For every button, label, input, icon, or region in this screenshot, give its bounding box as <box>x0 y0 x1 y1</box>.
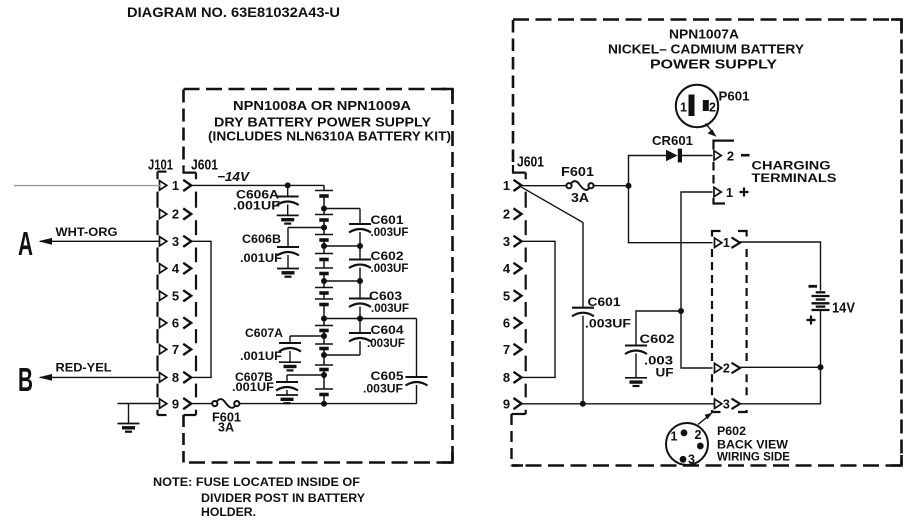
node: C603-C604 junction <box>357 316 363 322</box>
svg-text:A: A <box>18 225 33 262</box>
svg-text:WIRING SIDE: WIRING SIDE <box>717 450 790 464</box>
svg-text:NOTE: FUSE LOCATED INSIDE: NOTE: FUSE LOCATED INSIDE OF <box>153 475 360 489</box>
svg-text:CR601: CR601 <box>652 134 693 148</box>
wire: CR601 to charging terminal 2 <box>682 155 713 157</box>
svg-text:.003UF: .003UF <box>371 227 409 239</box>
battery BT1 plates <box>816 291 826 293</box>
svg-text:NICKEL– CADMIUM BATTERY: NICKEL– CADMIUM BATTERY <box>608 42 804 57</box>
svg-text:2: 2 <box>503 207 510 222</box>
svg-text:3A: 3A <box>218 421 234 435</box>
node: stack tap C604 <box>321 352 327 358</box>
wire: tap to C601 <box>324 208 360 210</box>
svg-text:F601: F601 <box>561 165 594 179</box>
node: stack tap C602/C603 <box>321 278 327 284</box>
svg-text:WHT-ORG: WHT-ORG <box>56 227 118 239</box>
battery B601 cell 8 <box>315 325 333 327</box>
svg-text:4: 4 <box>503 261 511 276</box>
svg-text:POWER SUPPLY: POWER SUPPLY <box>650 57 777 72</box>
charging terminal 1 (plus) <box>714 187 721 196</box>
battery B601 cell 3 <box>315 234 333 236</box>
wire: pin 1 to battery stack <box>192 184 324 186</box>
svg-text:TERMINALS: TERMINALS <box>752 171 837 185</box>
node: battery plus junction <box>818 364 824 370</box>
svg-text:3: 3 <box>723 397 730 411</box>
svg-text:C602: C602 <box>371 251 404 263</box>
battery B601 cell 1 <box>315 190 333 192</box>
ground (C606A) <box>277 214 299 216</box>
svg-text:2: 2 <box>723 362 730 376</box>
svg-text:9: 9 <box>503 396 510 411</box>
ground (C607B) <box>276 394 298 396</box>
battery B601 cell 7 <box>315 298 333 300</box>
svg-text:C606B: C606B <box>242 234 281 246</box>
node: C602 junction <box>678 308 684 314</box>
svg-text:2: 2 <box>172 207 179 222</box>
wire: tap to C601/C602 junction <box>324 245 360 247</box>
svg-text:P601: P601 <box>719 90 750 104</box>
svg-text:DRY BATTERY POWER SUPPLY: DRY BATTERY POWER SUPPLY <box>214 115 431 130</box>
P602 contact 2 <box>697 443 704 450</box>
J101/J601 pin 5 <box>160 291 167 300</box>
svg-text:1: 1 <box>680 101 687 115</box>
svg-text:HOLDER.: HOLDER. <box>201 505 256 519</box>
wire: battery to node <box>820 310 822 367</box>
node: C601 bottom on pin9 wire <box>580 401 586 407</box>
P602 jack pin 1 <box>715 238 722 247</box>
fuse F601 (left) <box>212 401 217 406</box>
J101/J601 pin 3 <box>160 237 167 246</box>
P601 contact 2 <box>703 100 709 111</box>
fuse F601 (right) <box>566 183 571 188</box>
capacitor C607B <box>286 375 288 382</box>
svg-text:1: 1 <box>671 430 678 444</box>
connector P602 jack outline <box>712 231 721 237</box>
svg-text:2: 2 <box>709 101 716 115</box>
wire: tap to C607A <box>290 335 324 337</box>
box corner reinforcements (left box) <box>442 89 453 463</box>
node: F601 output junction <box>626 183 632 189</box>
battery plus sign <box>807 319 816 321</box>
capacitor C606A <box>287 185 289 196</box>
capacitor C605 <box>416 319 418 378</box>
svg-text:C601: C601 <box>588 295 621 309</box>
svg-text:NPN1007A: NPN1007A <box>669 27 740 42</box>
capacitor C607A <box>289 336 291 343</box>
wire: pin3 to pin8 jumper (right) <box>523 241 555 377</box>
svg-text:.003UF: .003UF <box>367 338 405 350</box>
box corner reinforcements (right box) <box>512 20 902 466</box>
svg-text:−14V: −14V <box>217 169 250 184</box>
capacitor C606B <box>287 228 289 248</box>
svg-text:C605: C605 <box>371 371 405 383</box>
node: stack tap C601/C602 <box>321 243 327 249</box>
node: stack tap to C606B <box>321 225 327 231</box>
ground at J101 pin 9 <box>118 403 160 405</box>
J101/J601 pin 9 <box>160 399 167 408</box>
terminal B arrow wire (RED-YEL) <box>40 376 160 378</box>
svg-text:14V: 14V <box>832 300 855 317</box>
battery BT1 14V minus sign <box>809 285 818 288</box>
wire: charging terminal 1 to node <box>681 192 713 311</box>
svg-text:1: 1 <box>726 185 733 200</box>
terminal A arrow wire (WHT-ORG) <box>40 240 160 242</box>
svg-text:4: 4 <box>172 261 180 276</box>
svg-text:3A: 3A <box>571 191 589 205</box>
P602 contact 3 <box>680 456 687 463</box>
box edge corner into J601 <box>184 166 197 173</box>
J101/J601 pin 1 <box>160 181 167 190</box>
svg-text:J601: J601 <box>191 158 218 174</box>
wire: F601 to node <box>594 185 629 187</box>
svg-text:C603: C603 <box>369 291 402 303</box>
svg-text:3: 3 <box>172 234 179 249</box>
box edge corner into J601 (right) <box>513 165 526 173</box>
svg-text:.001UF: .001UF <box>240 253 282 265</box>
svg-text:1: 1 <box>503 178 510 193</box>
wire: pin1 to F601 (right) <box>523 185 567 187</box>
enclosure: dry battery power supply dashed box <box>184 88 453 91</box>
wire: tap to C602/C603 junction <box>324 280 360 282</box>
node: stack tap C607B <box>321 372 327 378</box>
svg-text:.001UF: .001UF <box>240 351 282 363</box>
charging terminal 2 (minus) <box>714 151 721 160</box>
svg-text:C602: C602 <box>640 332 675 346</box>
node: stack tap C603/C604/C605 <box>321 316 327 322</box>
wire: faint external line into pin 1 <box>14 185 160 187</box>
diode CR601 <box>666 150 678 162</box>
battery B601 cell 6 <box>315 287 333 289</box>
svg-text:8: 8 <box>172 370 179 385</box>
battery B601 cell 2 <box>315 214 333 216</box>
wire: tap to C607B <box>287 374 324 376</box>
battery B601 cell 4 <box>315 253 333 255</box>
svg-text:7: 7 <box>172 342 179 357</box>
J101/J601 pin 6 <box>160 318 167 327</box>
arrow: P601 to charging terminals <box>706 124 714 134</box>
svg-text:1: 1 <box>172 178 179 193</box>
J101/J601 pin 8 <box>160 373 167 382</box>
plus sign <box>740 191 749 193</box>
wire: P602 pin1 to battery top <box>740 242 821 291</box>
svg-text:6: 6 <box>503 316 510 331</box>
svg-text:.003UF: .003UF <box>363 384 403 396</box>
ground (C606B) <box>277 268 299 270</box>
node: stack bottom junction <box>321 401 327 407</box>
svg-text:3: 3 <box>503 234 510 249</box>
svg-text:.001UF: .001UF <box>232 382 274 394</box>
wire: F601 to stack bottom and C605 <box>239 403 416 405</box>
J101/J601 pin 4 <box>160 264 167 273</box>
svg-text:5: 5 <box>172 289 179 304</box>
svg-text:3: 3 <box>688 453 695 467</box>
svg-text:.003UF: .003UF <box>585 317 631 331</box>
node: C606A tap on pin1 wire <box>285 182 291 188</box>
svg-text:6: 6 <box>172 316 179 331</box>
connector J101 outline <box>158 171 167 173</box>
svg-text:RED-YEL: RED-YEL <box>56 363 112 375</box>
svg-text:C607A: C607A <box>245 328 283 340</box>
wire: pin9 to P602 pin 3 <box>523 403 715 405</box>
connector P602 (back view) <box>666 423 708 465</box>
svg-text:9: 9 <box>172 396 179 411</box>
battery B601 stack stem wire <box>323 185 325 403</box>
P601 contact 1 <box>689 95 695 117</box>
connector J601 (right) outline <box>525 173 527 414</box>
svg-text:.003UF: .003UF <box>371 303 409 315</box>
capacitor C603 <box>359 281 361 299</box>
wire: node up to CR601 <box>629 156 667 186</box>
capacitor C604 <box>359 319 361 334</box>
svg-text:B: B <box>18 361 33 398</box>
svg-text:2: 2 <box>727 148 734 163</box>
wire: node to C602 <box>636 311 681 346</box>
capacitor C601 (right) <box>572 307 594 309</box>
svg-text:J601: J601 <box>517 155 544 171</box>
capacitor C601 <box>359 209 361 225</box>
battery B601 cell 11 <box>315 388 333 390</box>
svg-text:7: 7 <box>503 342 510 357</box>
svg-text:UF: UF <box>656 366 674 380</box>
P602 contact 1 <box>681 429 688 436</box>
J101/J601 pin 2 <box>160 209 167 218</box>
wire: pin1 diagonal to C601 (right) <box>522 187 584 308</box>
battery B601 cell 10 <box>315 364 333 366</box>
connector P601 (plug face) <box>676 85 718 127</box>
capacitor C602 <box>359 246 361 260</box>
wire: node down to P602 pin2 <box>681 311 713 368</box>
wire: tap across to C605 branch <box>324 318 417 320</box>
battery B601 cell 5 <box>315 267 333 269</box>
svg-text:C601: C601 <box>371 215 405 227</box>
svg-text:P602: P602 <box>717 424 746 438</box>
wire: pin9 to F601 <box>192 403 213 405</box>
svg-text:5: 5 <box>503 289 510 304</box>
wire: tap to C606B <box>288 227 324 229</box>
enclosure: nickel-cadmium battery power supply dashed box <box>513 18 902 21</box>
P602 jack pin 2 <box>715 363 722 372</box>
P602 jack pin 3 <box>715 399 722 408</box>
node: stack tap to C601 <box>321 206 327 212</box>
wire: node down to P602 pin1 <box>629 186 713 243</box>
node: C601-C602 junction <box>357 243 363 249</box>
node: stack tap C607A <box>321 333 327 339</box>
J101/J601 pin 7 <box>160 345 167 354</box>
svg-text:.001UF: .001UF <box>233 201 280 213</box>
svg-text:2: 2 <box>695 428 702 442</box>
svg-text:1: 1 <box>723 236 730 250</box>
minus sign <box>741 154 750 157</box>
charging terminals bracket <box>714 141 735 150</box>
ground (C607A) <box>279 361 301 363</box>
svg-text:(INCLUDES NLN6310A BATTERY K: (INCLUDES NLN6310A BATTERY KIT) <box>208 129 451 144</box>
wire: C604 bottom to stack tap <box>324 354 360 356</box>
ground (C602) <box>625 377 647 379</box>
capacitor C602 (right) <box>625 344 647 346</box>
svg-text:C606A: C606A <box>236 189 279 201</box>
wire: J601 pin3 to pin8 jumper <box>192 241 212 377</box>
wire: P602 pin2 to node <box>740 366 821 368</box>
svg-text:DIAGRAM NO. 63E81032A43-U: DIAGRAM NO. 63E81032A43-U <box>127 4 340 20</box>
battery B601 cell 9 <box>315 343 333 345</box>
svg-text:DIVIDER POST IN BATTERY: DIVIDER POST IN BATTERY <box>201 491 365 505</box>
arrow: P602 to jack outline <box>698 416 709 425</box>
svg-text:NPN1008A OR NPN1009A: NPN1008A OR NPN1009A <box>233 98 412 113</box>
svg-text:.003UF: .003UF <box>371 263 409 275</box>
node: C602-C603 junction <box>357 278 363 284</box>
svg-text:8: 8 <box>503 370 510 385</box>
connector J601 outline <box>195 173 197 415</box>
wire: node down to P602 pin3 row <box>740 367 821 404</box>
svg-text:C604: C604 <box>371 325 405 337</box>
